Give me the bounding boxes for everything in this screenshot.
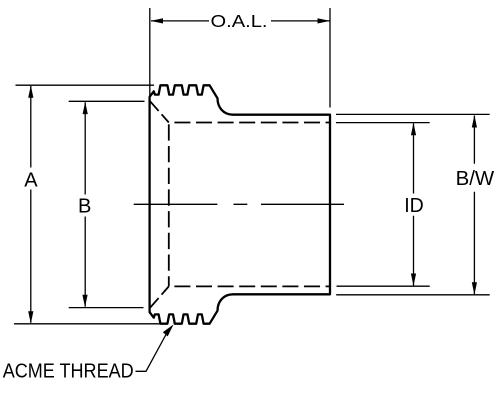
ID bottom extension line — [337, 285, 430, 287]
A top arrowhead — [28, 85, 33, 98]
ID bottom arrowhead — [411, 274, 416, 287]
hidden line: top bore ID (horizontal dashed) — [169, 122, 330, 124]
A top extension line — [16, 84, 155, 86]
B top extension line — [69, 100, 145, 102]
leader arrowhead — [163, 322, 176, 336]
svg-text:A: A — [24, 170, 38, 192]
B/W top arrowhead — [472, 115, 477, 128]
B bottom extension line — [69, 307, 144, 309]
centerline — [134, 203, 344, 205]
B bottom arrowhead — [82, 295, 87, 308]
O.A.L. dimension line — [151, 20, 330, 22]
B dimension line — [84, 102, 86, 306]
B/W bottom extension line — [336, 294, 490, 296]
B top arrowhead — [83, 102, 88, 115]
dimension A — [14, 85, 162, 324]
ID dimension line — [413, 123, 415, 286]
hidden line: top internal chamfer (diagonal dashed) — [150, 101, 169, 122]
svg-text:ID: ID — [404, 195, 424, 217]
hidden line: bottom bore ID (horizontal dashed) — [169, 285, 330, 287]
O.A.L. left extension line — [149, 8, 151, 96]
dimension O.A.L. — [150, 8, 330, 108]
O.A.L. right extension line — [329, 8, 331, 108]
part outline (ferrule cross-section with ACME threads) — [150, 85, 330, 323]
ID top extension line — [336, 122, 430, 124]
svg-text:B/W: B/W — [456, 168, 495, 190]
A bottom extension line — [14, 323, 162, 325]
hidden line: bore shoulder (vertical dashed) — [168, 123, 170, 287]
A bottom arrowhead — [28, 311, 33, 324]
svg-text:B: B — [78, 196, 91, 218]
dimension B/W — [336, 114, 490, 294]
leader line to ACME THREAD — [136, 335, 167, 372]
dimension B — [69, 101, 145, 307]
dimension ID — [336, 123, 430, 287]
hidden line: bottom internal chamfer (diagonal dashed) — [150, 286, 169, 307]
O.A.L. right arrowhead — [318, 18, 331, 23]
B/W top extension line — [336, 113, 490, 115]
A dimension line — [30, 86, 32, 323]
O.A.L. left arrowhead — [151, 18, 164, 23]
B/W dimension line — [473, 116, 475, 295]
svg-text:O.A.L.: O.A.L. — [211, 11, 268, 31]
svg-text:ACME THREAD: ACME THREAD — [3, 360, 134, 383]
B/W bottom arrowhead — [472, 282, 477, 295]
ID top arrowhead — [411, 123, 416, 136]
